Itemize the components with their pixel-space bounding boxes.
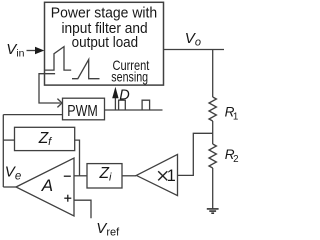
svg-text:Vo: Vo [185,30,201,49]
svg-text:1: 1 [167,167,176,185]
svg-text:Ve: Ve [5,163,21,182]
svg-text:Power stage with: Power stage with [51,6,157,22]
svg-text:R1: R1 [225,105,239,123]
svg-text:Zf: Zf [38,130,52,148]
svg-text:PWM: PWM [67,103,98,120]
svg-text:D: D [119,87,129,103]
svg-text:Vref: Vref [96,220,120,239]
svg-text:output load: output load [72,35,139,51]
svg-text:Zi: Zi [99,165,112,183]
svg-text:A: A [41,176,53,195]
svg-text:sensing: sensing [111,70,148,85]
svg-text:R2: R2 [225,147,239,165]
svg-text:Vin: Vin [6,41,24,60]
